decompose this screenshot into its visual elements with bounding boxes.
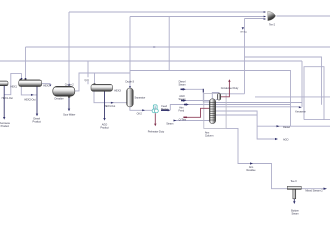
svg-text:Product: Product [33,120,42,124]
svg-text:Oil-2: Oil-2 [137,111,143,115]
svg-text:Kerosene: Kerosene [295,109,306,113]
svg-text:Mixed Stream-2: Mixed Stream-2 [305,189,323,193]
svg-text:Heater: Heater [161,107,168,111]
svg-text:Crude-3: Crude-3 [125,80,134,84]
svg-text:Preheater Duty: Preheater Duty [148,129,165,133]
svg-text:Off Gas: Off Gas [240,32,248,34]
svg-text:Q-Trim: Q-Trim [179,118,186,122]
svg-text:Residue: Residue [247,168,257,172]
svg-text:HEX3-Out: HEX3-Out [104,104,115,108]
svg-text:HEX2-Out: HEX2-Out [24,97,35,101]
svg-text:Steam: Steam [166,121,173,125]
svg-text:Tee-3: Tee-3 [290,179,297,183]
svg-text:Feed: Feed [179,108,185,112]
svg-text:Condenser Duty: Condenser Duty [221,86,239,90]
svg-text:Product: Product [1,124,10,128]
svg-text:Sour Water: Sour Water [63,112,75,116]
svg-text:Tee-2: Tee-2 [269,22,276,26]
svg-text:Steam: Steam [178,82,185,86]
svg-text:Product: Product [100,126,109,130]
svg-text:Diesel: Diesel [283,125,290,129]
svg-text:Desalter: Desalter [54,97,63,101]
svg-text:Separator: Separator [134,95,145,99]
svg-text:Q-3: Q-3 [84,78,89,82]
svg-text:Steam: Steam [178,97,185,101]
svg-text:Crude-2: Crude-2 [65,82,74,86]
svg-text:HEX1: HEX1 [10,84,17,88]
svg-text:HEX1-Out: HEX1-Out [2,96,13,100]
svg-text:Steam: Steam [291,211,298,215]
svg-text:HEX3: HEX3 [114,89,121,93]
svg-text:Column: Column [205,134,214,138]
svg-text:HEX2: HEX2 [43,83,50,87]
svg-text:AGO: AGO [283,138,289,142]
